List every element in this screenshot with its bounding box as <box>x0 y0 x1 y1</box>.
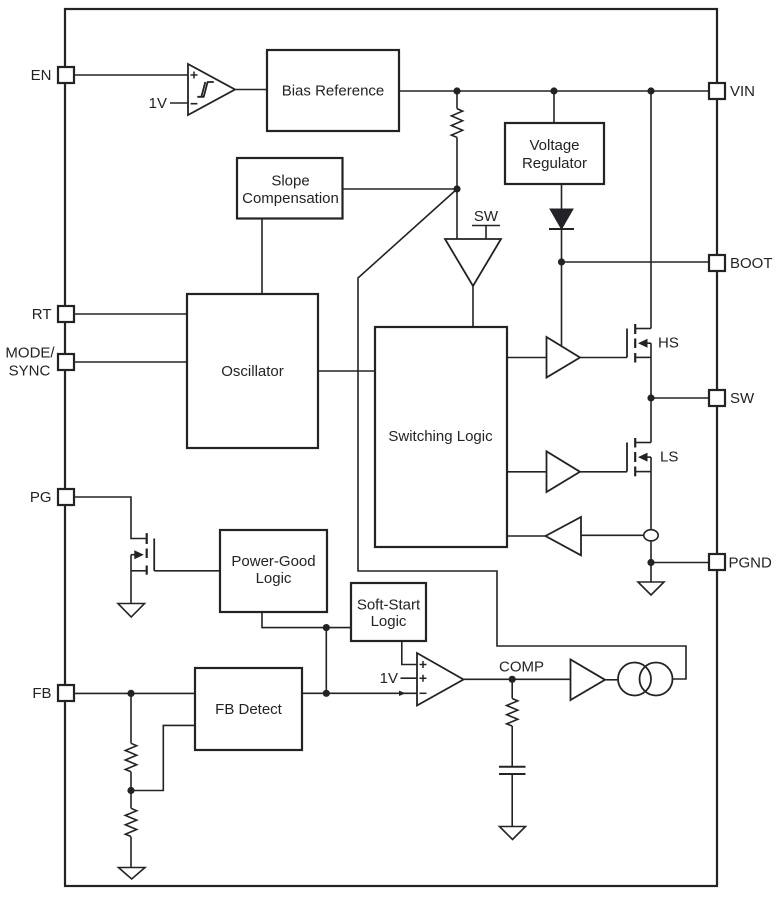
wire 1V to error amp plus2 <box>401 677 418 679</box>
wire VIN rail from Bias Reference to VIN pin <box>399 90 709 92</box>
transistor LS <box>627 438 651 476</box>
capacitor compensation <box>499 767 526 827</box>
svg-text:RT: RT <box>32 306 52 323</box>
wire summing node to SW buffer input <box>456 189 458 239</box>
wire RT pin to Oscillator <box>74 313 187 315</box>
svg-text:PGND: PGND <box>729 554 773 571</box>
wire PGND node to PGND pin <box>651 562 709 564</box>
svg-text:Soft-Start: Soft-Start <box>357 596 421 613</box>
wire Slope Compensation output to summing node <box>343 188 458 190</box>
svg-text:Logic: Logic <box>256 570 292 587</box>
svg-text:BOOT: BOOT <box>730 255 773 272</box>
wire junction down to FB detect output line <box>325 628 327 694</box>
svg-text:COMP: COMP <box>499 659 544 676</box>
wire MODE/SYNC pin to Oscillator <box>74 361 187 363</box>
wire SW node to LS drain <box>650 398 652 443</box>
node junction VIN-HS <box>647 87 654 94</box>
wire 1V to comparator minus <box>170 102 188 104</box>
svg-text:Voltage: Voltage <box>529 137 579 154</box>
ground FB divider <box>119 868 146 880</box>
resistor slope-sense (VIN to summing node) <box>451 91 462 189</box>
wire LS driver output to LS gate <box>580 471 627 473</box>
wire Oscillator to Switching Logic <box>318 370 375 372</box>
block Power-Good Logic <box>220 530 327 612</box>
svg-text:1V: 1V <box>380 670 398 687</box>
wire comparator output to Bias Reference <box>235 89 267 91</box>
svg-text:LS: LS <box>660 449 678 466</box>
svg-text:Oscillator: Oscillator <box>221 363 284 380</box>
wire PG MOSFET gate to Power-Good Logic <box>154 570 220 572</box>
wire FB Detect tap <box>131 725 195 790</box>
wire Voltage Regulator to diode <box>561 184 563 209</box>
transistor HS <box>627 324 651 398</box>
wire Switching Logic to HS driver <box>507 357 547 359</box>
block Switching Logic <box>375 327 507 547</box>
pin SW <box>709 390 755 407</box>
wire Switching Logic to LS driver <box>507 471 547 473</box>
ground PGND <box>638 563 664 596</box>
pin FB <box>32 685 74 702</box>
resistor FB bottom <box>125 791 136 868</box>
node COMP <box>509 676 516 683</box>
current source symbol <box>618 663 673 696</box>
diode bootstrap <box>549 209 574 262</box>
block Soft-Start Logic <box>351 583 426 641</box>
arrow signal direction on FB detect line <box>399 691 406 696</box>
ground PG MOSFET source <box>118 555 145 617</box>
block Oscillator <box>187 294 318 448</box>
resistor compensation <box>507 679 518 766</box>
wire PG pin to PG MOSFET drain <box>74 497 147 539</box>
svg-text:Power-Good: Power-Good <box>231 553 315 570</box>
wire sense amp output to Switching Logic <box>507 535 546 537</box>
svg-text:Regulator: Regulator <box>522 155 587 172</box>
wire BOOT rail <box>562 261 710 263</box>
wire SW buffer output to Switching Logic <box>472 286 474 327</box>
op-amp EN comparator <box>188 64 235 115</box>
wire VIN to Voltage Regulator <box>553 91 555 123</box>
wire Slope Compensation to Oscillator <box>261 219 263 295</box>
node FB junction <box>127 690 134 697</box>
transistor PG open-drain <box>131 533 154 575</box>
pin RT <box>32 306 74 323</box>
svg-text:VIN: VIN <box>730 83 755 100</box>
wire sensor to sense amp <box>581 534 644 536</box>
svg-text:Switching Logic: Switching Logic <box>388 428 493 445</box>
node FB detect output junction <box>323 690 330 697</box>
wire Soft-Start Logic to error amp plus1 <box>402 641 417 665</box>
op-amp HS gate driver <box>547 337 581 378</box>
resistor FB top <box>125 693 136 790</box>
node soft-start junction <box>323 624 330 631</box>
pin BOOT <box>709 255 773 272</box>
wire BOOT to HS driver supply <box>561 262 563 347</box>
wire sensor to PGND node <box>650 541 652 563</box>
pin EN <box>31 67 74 84</box>
svg-text:SW: SW <box>730 390 755 407</box>
wire diagonal from summing node <box>358 189 686 679</box>
svg-text:MODE/: MODE/ <box>5 344 55 361</box>
block Voltage Regulator <box>505 123 604 184</box>
node BOOT junction <box>558 258 565 265</box>
current sensor element <box>644 530 658 541</box>
wire buffer to current source <box>605 679 618 681</box>
wire error amp output to buffer <box>464 678 571 680</box>
svg-text:SW: SW <box>474 208 499 225</box>
pin VIN <box>709 83 755 100</box>
node junction VIN-resistor <box>453 87 460 94</box>
svg-text:1V: 1V <box>149 95 167 112</box>
wire HS driver output to HS gate <box>580 357 627 359</box>
pin PG <box>30 489 74 506</box>
svg-text:SYNC: SYNC <box>9 362 51 379</box>
node summing junction <box>453 185 460 192</box>
svg-text:Compensation: Compensation <box>242 190 339 207</box>
svg-text:FB: FB <box>32 685 51 702</box>
node junction VIN-vreg <box>550 87 557 94</box>
wire VIN to HS drain <box>650 91 652 329</box>
pin MODE/SYNC <box>5 344 74 379</box>
op-amp SW sense buffer <box>445 239 501 286</box>
op-amp LS gate driver <box>547 451 581 492</box>
svg-text:EN: EN <box>31 67 52 84</box>
wire FB Detect output to error amp minus <box>302 692 417 694</box>
svg-text:HS: HS <box>658 335 679 352</box>
block FB Detect <box>195 668 302 750</box>
wire EN pin to comparator <box>74 74 188 76</box>
label SW (internal node) <box>472 208 500 239</box>
node FB divider junction <box>127 787 134 794</box>
svg-text:Slope: Slope <box>271 172 309 189</box>
op-amp error amplifier <box>417 653 464 706</box>
svg-text:Bias Reference: Bias Reference <box>282 83 385 100</box>
wire SW node to SW pin <box>651 397 709 399</box>
block Bias Reference <box>267 50 399 131</box>
wire LS source to current sensor <box>650 457 652 530</box>
wire FB pin to FB Detect <box>74 692 195 694</box>
svg-text:FB Detect: FB Detect <box>215 701 283 718</box>
svg-text:PG: PG <box>30 489 52 506</box>
wire Power-Good Logic to Soft-Start Logic <box>262 612 351 628</box>
node PGND junction <box>647 559 654 566</box>
svg-text:Logic: Logic <box>371 613 407 630</box>
op-amp current sense amplifier <box>546 517 582 555</box>
ground compensation <box>500 827 526 840</box>
node SW junction <box>647 394 654 401</box>
op-amp COMP output buffer <box>571 660 606 701</box>
pin PGND <box>709 554 772 571</box>
block Slope Compensation <box>237 158 343 219</box>
